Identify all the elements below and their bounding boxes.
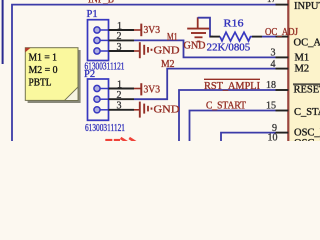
svg-text:GND: GND <box>184 41 206 52</box>
svg-text:15: 15 <box>266 101 276 112</box>
svg-text:17: 17 <box>267 0 276 5</box>
svg-text:RESET: RESET <box>294 84 320 95</box>
P1 pin 2 stub <box>109 39 135 41</box>
connector P2 body <box>88 79 109 120</box>
svg-text:C_START: C_START <box>206 100 247 111</box>
P2 pin 1 stub <box>109 88 135 90</box>
P1 pin 2 circle <box>94 37 100 43</box>
U1 pin OC_ADJ stub <box>276 36 289 38</box>
svg-text:4: 4 <box>271 59 276 70</box>
svg-text:OSC_I: OSC_I <box>294 128 320 139</box>
power ground GND (P2 pin 3) <box>134 102 180 118</box>
P2 pin 3 circle <box>94 107 100 113</box>
svg-text:PBTL: PBTL <box>29 76 52 88</box>
svg-text:1: 1 <box>117 79 122 90</box>
svg-text:C_STAR: C_STAR <box>294 107 320 118</box>
power port 3V3 (P1 pin 1) <box>134 24 160 37</box>
svg-text:3: 3 <box>117 42 122 53</box>
wire net RST_AMPLI <box>179 90 276 141</box>
wire to pin 9 <box>221 133 276 141</box>
svg-text:R16: R16 <box>224 18 244 29</box>
svg-text:3: 3 <box>117 101 122 112</box>
svg-text:18: 18 <box>266 80 276 91</box>
P1 pin 1 stub <box>109 29 135 31</box>
wire (left vertical, cropped net) <box>2 0 4 64</box>
svg-text:INPUT: INPUT <box>294 1 320 12</box>
svg-text:M1: M1 <box>295 52 310 63</box>
svg-text:M2 = 0: M2 = 0 <box>29 64 58 76</box>
power port 3V3 (P2 pin 1) <box>134 83 160 95</box>
port RST (cropped at bottom) <box>105 138 137 143</box>
svg-text:OSC_I: OSC_I <box>294 138 320 141</box>
wire net M1 <box>134 40 276 57</box>
resistor R16 <box>210 32 262 41</box>
U1 pin 9 stub <box>276 132 289 134</box>
svg-text:P1: P1 <box>87 9 98 20</box>
U1 pin 3 stub <box>276 56 289 58</box>
svg-text:3V3: 3V3 <box>144 85 161 96</box>
svg-text:3V3: 3V3 <box>144 25 161 36</box>
P2 pin 2 circle <box>94 96 100 102</box>
svg-text:M2: M2 <box>161 59 175 70</box>
P2 pin 2 stub <box>109 98 135 100</box>
wire INP_B (top horizontal + left vertical) <box>12 5 276 141</box>
svg-text:OC_AD: OC_AD <box>294 37 320 48</box>
connector P1 body <box>88 20 109 61</box>
net label RST_AMPLI (with overline) <box>204 78 260 80</box>
wire net M2 <box>134 69 276 100</box>
svg-text:22K/0805: 22K/0805 <box>207 42 251 53</box>
power ground GND (P1 pin 3) <box>134 42 180 58</box>
svg-text:3: 3 <box>271 48 276 59</box>
svg-text:RST_AMPLI: RST_AMPLI <box>204 81 260 92</box>
svg-text:1: 1 <box>117 21 122 32</box>
svg-text:2: 2 <box>117 90 122 101</box>
U1 pin 15 stub <box>276 110 289 112</box>
P1 pin 1 circle <box>94 27 100 33</box>
svg-text:61300311121: 61300311121 <box>85 123 125 134</box>
wire net C_START <box>190 111 276 142</box>
U1 pin 18 stub <box>276 89 289 91</box>
wire net OC_ADJ <box>262 36 276 38</box>
svg-text:M1 = 1: M1 = 1 <box>29 51 58 63</box>
svg-text:GND: GND <box>154 45 180 57</box>
P1 pin 3 stub <box>109 50 135 52</box>
P2 pin 1 circle <box>94 85 100 91</box>
note (sticky annotation) <box>25 48 80 103</box>
svg-text:M1: M1 <box>167 32 178 43</box>
svg-text:M2: M2 <box>295 64 310 75</box>
power ground GND (R16 net) <box>184 17 211 51</box>
pin name RESET (with overline) <box>293 83 320 85</box>
wire GND to R16 <box>198 18 213 37</box>
U1 pin 4 stub <box>276 68 289 70</box>
svg-text:GND: GND <box>154 103 180 115</box>
svg-text:10: 10 <box>268 133 278 141</box>
P2 pin 3 stub <box>109 109 135 111</box>
IC U1 body (cropped, right side) <box>288 0 320 141</box>
P1 pin 3 circle <box>94 48 100 54</box>
pin 17 stub of U1 <box>276 4 289 6</box>
svg-text:2: 2 <box>117 31 122 42</box>
